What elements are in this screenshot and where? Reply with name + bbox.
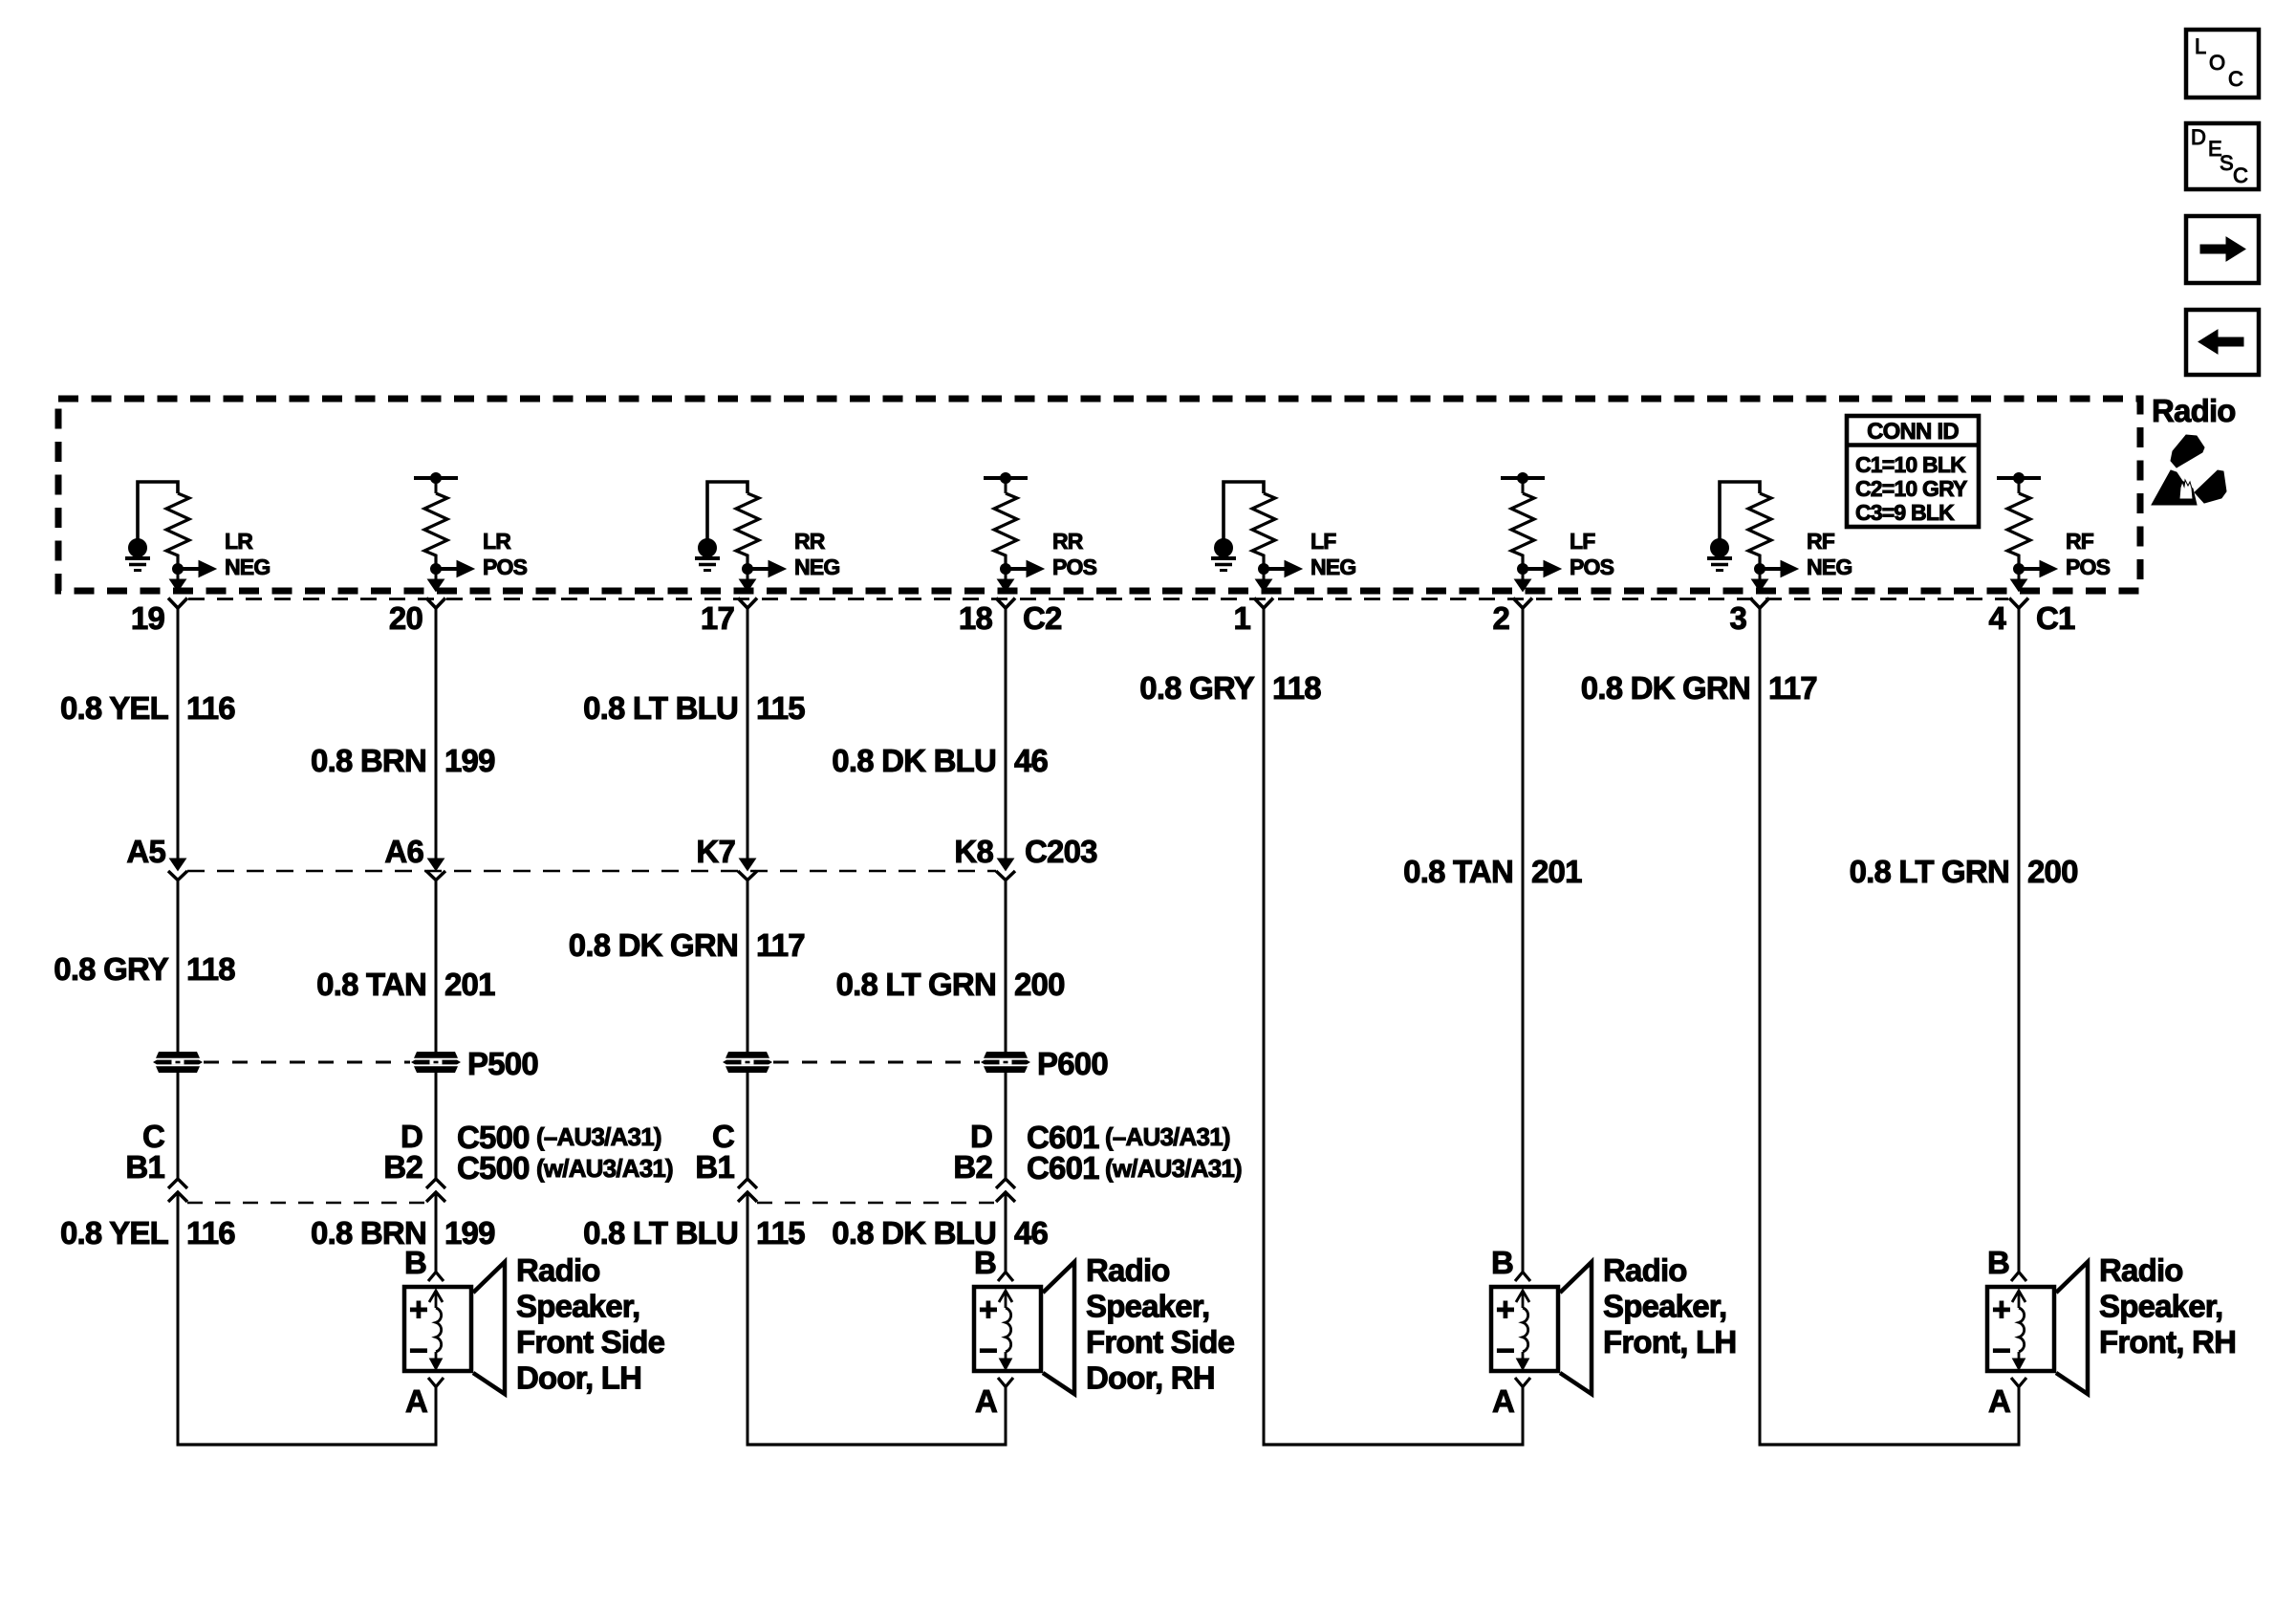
wire top bar LR POS <box>414 473 458 494</box>
svg-text:0.8 DK GRN: 0.8 DK GRN <box>569 927 738 963</box>
wire signal arrow LR POS <box>436 561 474 577</box>
connector pin C/B1 <box>125 1119 187 1202</box>
wire label 0.8 GRY 118 <box>54 951 235 987</box>
ground symbol RR NEG <box>695 539 720 571</box>
speaker polarity labels <box>1992 1292 2010 1369</box>
wire label 0.8 BRN 199 <box>311 743 495 778</box>
wire <box>747 608 749 859</box>
svg-text:K7: K7 <box>696 834 735 869</box>
wire <box>435 1072 438 1180</box>
splice P500 link <box>204 1061 410 1064</box>
wire <box>747 1072 749 1180</box>
svg-text:+: + <box>409 1292 427 1328</box>
svg-text:B: B <box>404 1245 426 1280</box>
svg-text:0.8 LT GRN: 0.8 LT GRN <box>836 967 996 1002</box>
radio pin 17 terminal <box>738 598 757 609</box>
svg-text:Radio: Radio <box>2099 1252 2183 1288</box>
svg-text:17: 17 <box>701 600 734 636</box>
svg-text:0.8 LT BLU: 0.8 LT BLU <box>583 1215 738 1251</box>
resistor RR POS <box>994 493 1017 569</box>
svg-text:C1: C1 <box>2036 600 2075 636</box>
wire label 0.8 YEL 116 <box>60 1215 235 1251</box>
speaker terminal A <box>975 1378 1013 1419</box>
label LR NEG <box>225 529 270 579</box>
ground symbol LR NEG <box>125 539 150 571</box>
wire <box>747 880 749 1053</box>
component label Radio Speaker, Front, LH <box>1603 1252 1736 1360</box>
button next arrow <box>2186 216 2259 283</box>
svg-text:D: D <box>2191 125 2205 149</box>
svg-text:0.8 TAN: 0.8 TAN <box>1403 854 1513 889</box>
wire down to radio pin 17 <box>740 569 756 592</box>
svg-text:18: 18 <box>959 600 993 636</box>
svg-text:−: − <box>1992 1333 2010 1369</box>
svg-text:Radio: Radio <box>1086 1252 1170 1288</box>
svg-text:(–AU3/A31): (–AU3/A31) <box>536 1122 661 1151</box>
svg-text:117: 117 <box>756 927 805 963</box>
svg-text:K8: K8 <box>954 834 993 869</box>
ESD sensitive device symbol <box>2152 435 2226 505</box>
wire <box>2018 1386 2021 1445</box>
speaker terminal A <box>1492 1378 1530 1419</box>
svg-text:0.8 YEL: 0.8 YEL <box>60 1215 169 1251</box>
svg-text:A6: A6 <box>384 834 423 869</box>
speaker terminal A <box>405 1378 444 1419</box>
radio pin 4 terminal <box>2009 598 2028 609</box>
svg-text:−: − <box>979 1333 997 1369</box>
speaker horn cone <box>1043 1262 1074 1394</box>
svg-text:LF: LF <box>1570 529 1595 554</box>
speaker voice coil <box>2012 1291 2025 1370</box>
speaker Front, LH box <box>1491 1287 1558 1371</box>
svg-text:LR: LR <box>483 529 511 554</box>
svg-text:NEG: NEG <box>225 555 270 579</box>
wire <box>435 608 438 859</box>
speaker terminal A <box>1988 1378 2026 1419</box>
wire <box>1263 608 1266 1445</box>
speaker terminal B <box>1491 1245 1530 1281</box>
svg-text:2: 2 <box>1492 600 1509 636</box>
svg-text:A5: A5 <box>126 834 165 869</box>
svg-text:RF: RF <box>1807 529 1835 554</box>
splice P500 left <box>153 1052 203 1073</box>
svg-text:Door, RH: Door, RH <box>1086 1360 1215 1396</box>
wire top bar RR POS <box>984 473 1028 494</box>
svg-text:Speaker,: Speaker, <box>1086 1289 1209 1324</box>
speaker horn cone <box>1560 1262 1592 1394</box>
svg-text:116: 116 <box>186 690 235 726</box>
svg-text:A: A <box>405 1383 427 1419</box>
connector C500 line <box>187 1202 426 1205</box>
svg-text:0.8 YEL: 0.8 YEL <box>60 690 169 726</box>
component label Radio Speaker, Front Side Door, LH <box>516 1252 665 1396</box>
label LF NEG <box>1310 529 1355 579</box>
speaker Door, LH box <box>404 1287 471 1371</box>
connector C601 line <box>757 1202 996 1205</box>
wire <box>1005 608 1007 859</box>
svg-text:118: 118 <box>1272 670 1321 706</box>
svg-text:199: 199 <box>444 743 495 778</box>
svg-text:Radio: Radio <box>516 1252 600 1288</box>
svg-text:RR: RR <box>1052 529 1084 554</box>
radio pin 3 terminal <box>1750 598 1769 609</box>
svg-text:1: 1 <box>1233 600 1250 636</box>
wire down to radio pin 18 <box>998 569 1014 592</box>
svg-text:O: O <box>2209 51 2225 75</box>
radio pin 1 terminal <box>1254 598 1273 609</box>
wire label 0.8 DK BLU 46 <box>832 1215 1048 1251</box>
wire <box>177 608 180 859</box>
svg-text:C203: C203 <box>1025 834 1097 869</box>
svg-text:NEG: NEG <box>1807 555 1852 579</box>
button back arrow <box>2186 310 2259 375</box>
svg-text:+: + <box>1496 1292 1514 1328</box>
svg-text:(w/AU3/A31): (w/AU3/A31) <box>1105 1154 1242 1183</box>
component label Radio Speaker, Front, RH <box>2099 1252 2236 1360</box>
speaker terminal B <box>974 1245 1013 1281</box>
wire bottom return <box>1263 1443 1525 1446</box>
connector pin C/B1 <box>695 1119 757 1202</box>
svg-text:A: A <box>1988 1383 2010 1419</box>
svg-text:116: 116 <box>186 1215 235 1251</box>
wire <box>1005 880 1007 1053</box>
svg-text:(w/AU3/A31): (w/AU3/A31) <box>536 1154 673 1183</box>
radio component dashed box <box>58 399 2140 591</box>
svg-text:0.8 DK BLU: 0.8 DK BLU <box>832 1215 996 1251</box>
connector C203 line <box>187 870 996 873</box>
wire down to radio pin 3 <box>1752 569 1768 592</box>
wire bottom return <box>1759 1443 2021 1446</box>
speaker polarity labels <box>979 1292 997 1369</box>
label LF POS <box>1570 529 1614 579</box>
wire label 0.8 BRN 199 <box>311 1215 495 1251</box>
svg-text:199: 199 <box>444 1215 495 1251</box>
wire label 0.8 DK BLU 46 <box>832 743 1048 778</box>
wire down to radio pin 2 <box>1515 569 1531 592</box>
button DESC <box>2186 123 2259 189</box>
button LOC <box>2186 30 2259 98</box>
wire signal arrow LF POS <box>1523 561 1561 577</box>
wire signal arrow RR NEG <box>747 561 786 577</box>
svg-text:POS: POS <box>483 555 528 579</box>
wire <box>435 880 438 1053</box>
svg-text:A: A <box>975 1383 997 1419</box>
svg-text:POS: POS <box>1570 555 1614 579</box>
wire down to radio pin 1 <box>1256 569 1272 592</box>
connector pin D/B2 <box>383 1119 445 1202</box>
svg-text:CONN ID: CONN ID <box>1867 419 1959 445</box>
radio connector face line C1/C2 <box>188 598 2008 600</box>
splice P600 left <box>723 1052 772 1073</box>
speaker Front, RH box <box>1987 1287 2054 1371</box>
wire <box>1005 1192 1007 1273</box>
svg-text:+: + <box>979 1292 997 1328</box>
svg-text:20: 20 <box>389 600 422 636</box>
wire signal arrow RR POS <box>1006 561 1044 577</box>
svg-text:0.8 TAN: 0.8 TAN <box>316 967 426 1002</box>
radio pin 2 terminal <box>1513 598 1532 609</box>
svg-text:46: 46 <box>1014 1215 1049 1251</box>
resistor LR POS <box>424 493 447 569</box>
svg-text:200: 200 <box>2027 854 2078 889</box>
wire bottom return <box>747 1443 1007 1446</box>
label RR POS <box>1052 529 1097 579</box>
wire down to radio pin 20 <box>428 569 444 592</box>
wire <box>1522 608 1525 1273</box>
speaker terminal B <box>404 1245 444 1281</box>
ground symbol RF NEG <box>1707 539 1732 571</box>
wire signal arrow RF NEG <box>1760 561 1798 577</box>
svg-text:L: L <box>2195 34 2206 58</box>
svg-text:115: 115 <box>756 690 805 726</box>
svg-text:C: C <box>2233 163 2248 187</box>
label RF NEG <box>1807 529 1852 579</box>
speaker horn cone <box>2056 1262 2088 1394</box>
wire label 0.8 DK GRN 117 <box>569 927 805 963</box>
node RR NEG output junction <box>743 564 753 575</box>
svg-text:200: 200 <box>1014 967 1065 1002</box>
connector pin D/B2 <box>953 1119 1015 1202</box>
wire <box>177 1192 180 1445</box>
svg-text:201: 201 <box>444 967 495 1002</box>
wire label 0.8 GRY 118 <box>1139 670 1321 706</box>
wire <box>435 1192 438 1273</box>
svg-text:NEG: NEG <box>1310 555 1355 579</box>
svg-text:0.8 DK GRN: 0.8 DK GRN <box>1581 670 1750 706</box>
resistor LF NEG <box>1252 493 1275 569</box>
wire <box>1522 1386 1525 1445</box>
wire signal arrow RF POS <box>2019 561 2057 577</box>
wire ground hook LF NEG <box>1224 482 1264 540</box>
svg-text:NEG: NEG <box>794 555 839 579</box>
svg-text:0.8 LT GRN: 0.8 LT GRN <box>1850 854 2009 889</box>
svg-text:0.8 LT BLU: 0.8 LT BLU <box>583 690 738 726</box>
svg-text:P600: P600 <box>1037 1046 1108 1081</box>
svg-text:0.8 GRY: 0.8 GRY <box>54 951 169 987</box>
svg-text:LR: LR <box>225 529 253 554</box>
splice P600 right <box>981 1052 1030 1073</box>
node RF POS output junction <box>2014 564 2025 575</box>
svg-text:118: 118 <box>186 951 235 987</box>
svg-text:Radio: Radio <box>1603 1252 1687 1288</box>
ground symbol LF NEG <box>1211 539 1236 571</box>
svg-text:4: 4 <box>1988 600 2006 636</box>
wire down to radio pin 19 <box>170 569 186 592</box>
svg-text:B: B <box>974 1245 996 1280</box>
svg-text:−: − <box>1496 1333 1514 1369</box>
wire label 0.8 LT BLU 115 <box>583 690 805 726</box>
splice P500 right <box>411 1052 461 1073</box>
svg-text:Radio: Radio <box>2152 393 2236 428</box>
wire label 0.8 LT GRN 200 <box>1850 854 2078 889</box>
wire signal arrow LR NEG <box>178 561 216 577</box>
wire <box>1005 1386 1007 1445</box>
svg-text:C2=10 GRY: C2=10 GRY <box>1855 476 1967 501</box>
svg-text:19: 19 <box>131 600 165 636</box>
svg-text:0.8 BRN: 0.8 BRN <box>311 743 426 778</box>
connector C203 pin A6 <box>384 822 445 881</box>
node LR POS output junction <box>431 564 442 575</box>
speaker Door, RH box <box>974 1287 1041 1371</box>
svg-text:POS: POS <box>1052 555 1097 579</box>
resistor LF POS <box>1511 493 1534 569</box>
svg-text:Door, LH: Door, LH <box>516 1360 641 1396</box>
resistor LR NEG <box>166 493 189 569</box>
radio pin 20 terminal <box>426 598 445 609</box>
node LF NEG output junction <box>1259 564 1269 575</box>
node RF NEG output junction <box>1755 564 1765 575</box>
wire bottom return <box>177 1443 438 1446</box>
resistor RF POS <box>2007 493 2030 569</box>
wire ground hook LR NEG <box>138 482 178 540</box>
wire ground hook RR NEG <box>707 482 747 540</box>
speaker polarity labels <box>409 1292 427 1369</box>
svg-text:LF: LF <box>1310 529 1336 554</box>
svg-text:−: − <box>409 1333 427 1369</box>
svg-text:RR: RR <box>794 529 826 554</box>
wire label 0.8 TAN 201 <box>1403 854 1582 889</box>
svg-text:(–AU3/A31): (–AU3/A31) <box>1105 1122 1230 1151</box>
svg-text:3: 3 <box>1729 600 1746 636</box>
svg-text:Speaker,: Speaker, <box>1603 1289 1726 1324</box>
resistor RR NEG <box>736 493 759 569</box>
speaker polarity labels <box>1496 1292 1514 1369</box>
wire top bar RF POS <box>1997 473 2041 494</box>
radio pin 18 terminal <box>996 598 1015 609</box>
svg-text:A: A <box>1492 1383 1514 1419</box>
speaker voice coil <box>1516 1291 1529 1370</box>
wire <box>1759 608 1762 1445</box>
wire <box>2018 608 2021 1273</box>
svg-text:Front, RH: Front, RH <box>2099 1324 2236 1360</box>
svg-text:Front Side: Front Side <box>1086 1324 1235 1360</box>
svg-text:201: 201 <box>1531 854 1582 889</box>
speaker voice coil <box>999 1291 1012 1370</box>
wire label 0.8 YEL 116 <box>60 690 235 726</box>
svg-text:C1=10 BLK: C1=10 BLK <box>1855 452 1966 477</box>
wire <box>747 1192 749 1445</box>
connector label C601 <box>1027 1120 1242 1186</box>
connector C203 pin K8 <box>954 822 1015 881</box>
connector label C500 <box>457 1120 673 1186</box>
speaker horn cone <box>473 1262 505 1394</box>
radio pin 19 terminal <box>168 598 187 609</box>
svg-text:C: C <box>2228 67 2243 91</box>
svg-text:B1: B1 <box>695 1149 734 1185</box>
svg-text:RF: RF <box>2066 529 2094 554</box>
connector C203 pin K7 <box>696 822 757 881</box>
svg-text:B: B <box>1987 1245 2009 1280</box>
svg-text:B2: B2 <box>953 1149 992 1185</box>
svg-text:115: 115 <box>756 1215 805 1251</box>
label RF POS <box>2066 529 2111 579</box>
svg-text:+: + <box>1992 1292 2010 1328</box>
speaker voice coil <box>429 1291 443 1370</box>
svg-text:Speaker,: Speaker, <box>516 1289 639 1324</box>
wire down to radio pin 4 <box>2011 569 2027 592</box>
svg-text:Speaker,: Speaker, <box>2099 1289 2222 1324</box>
svg-text:46: 46 <box>1014 743 1049 778</box>
svg-text:C500: C500 <box>457 1150 530 1186</box>
speaker terminal B <box>1987 1245 2026 1281</box>
node RR POS output junction <box>1001 564 1011 575</box>
resistor RF NEG <box>1748 493 1771 569</box>
svg-text:117: 117 <box>1768 670 1817 706</box>
component label Radio Speaker, Front Side Door, RH <box>1086 1252 1235 1396</box>
svg-text:C3=9 BLK: C3=9 BLK <box>1855 500 1955 525</box>
svg-text:Front, LH: Front, LH <box>1603 1324 1736 1360</box>
wire top bar LF POS <box>1501 473 1545 494</box>
label RR NEG <box>794 529 839 579</box>
node LF POS output junction <box>1518 564 1528 575</box>
svg-text:Front Side: Front Side <box>516 1324 665 1360</box>
svg-text:P500: P500 <box>467 1046 538 1081</box>
CONN ID table <box>1847 416 1979 527</box>
svg-text:0.8 DK BLU: 0.8 DK BLU <box>832 743 996 778</box>
node LR NEG output junction <box>173 564 184 575</box>
svg-text:B: B <box>1491 1245 1513 1280</box>
svg-text:C2: C2 <box>1023 600 1062 636</box>
wire label 0.8 LT BLU 115 <box>583 1215 805 1251</box>
svg-text:B1: B1 <box>125 1149 164 1185</box>
svg-text:S: S <box>2220 151 2233 175</box>
wire signal arrow LF NEG <box>1264 561 1302 577</box>
wire ground hook RF NEG <box>1720 482 1760 540</box>
wire <box>177 1072 180 1180</box>
wire <box>177 880 180 1053</box>
wire <box>1005 1072 1007 1180</box>
wire <box>435 1386 438 1445</box>
svg-text:0.8 GRY: 0.8 GRY <box>1139 670 1255 706</box>
wire label 0.8 TAN 201 <box>316 967 495 1002</box>
svg-text:B2: B2 <box>383 1149 422 1185</box>
wire label 0.8 LT GRN 200 <box>836 967 1065 1002</box>
connector C203 pin A5 <box>126 822 187 881</box>
wire label 0.8 DK GRN 117 <box>1581 670 1817 706</box>
svg-text:POS: POS <box>2066 555 2111 579</box>
label LR POS <box>483 529 528 579</box>
splice P600 link <box>773 1061 980 1064</box>
svg-text:C601: C601 <box>1027 1150 1099 1186</box>
